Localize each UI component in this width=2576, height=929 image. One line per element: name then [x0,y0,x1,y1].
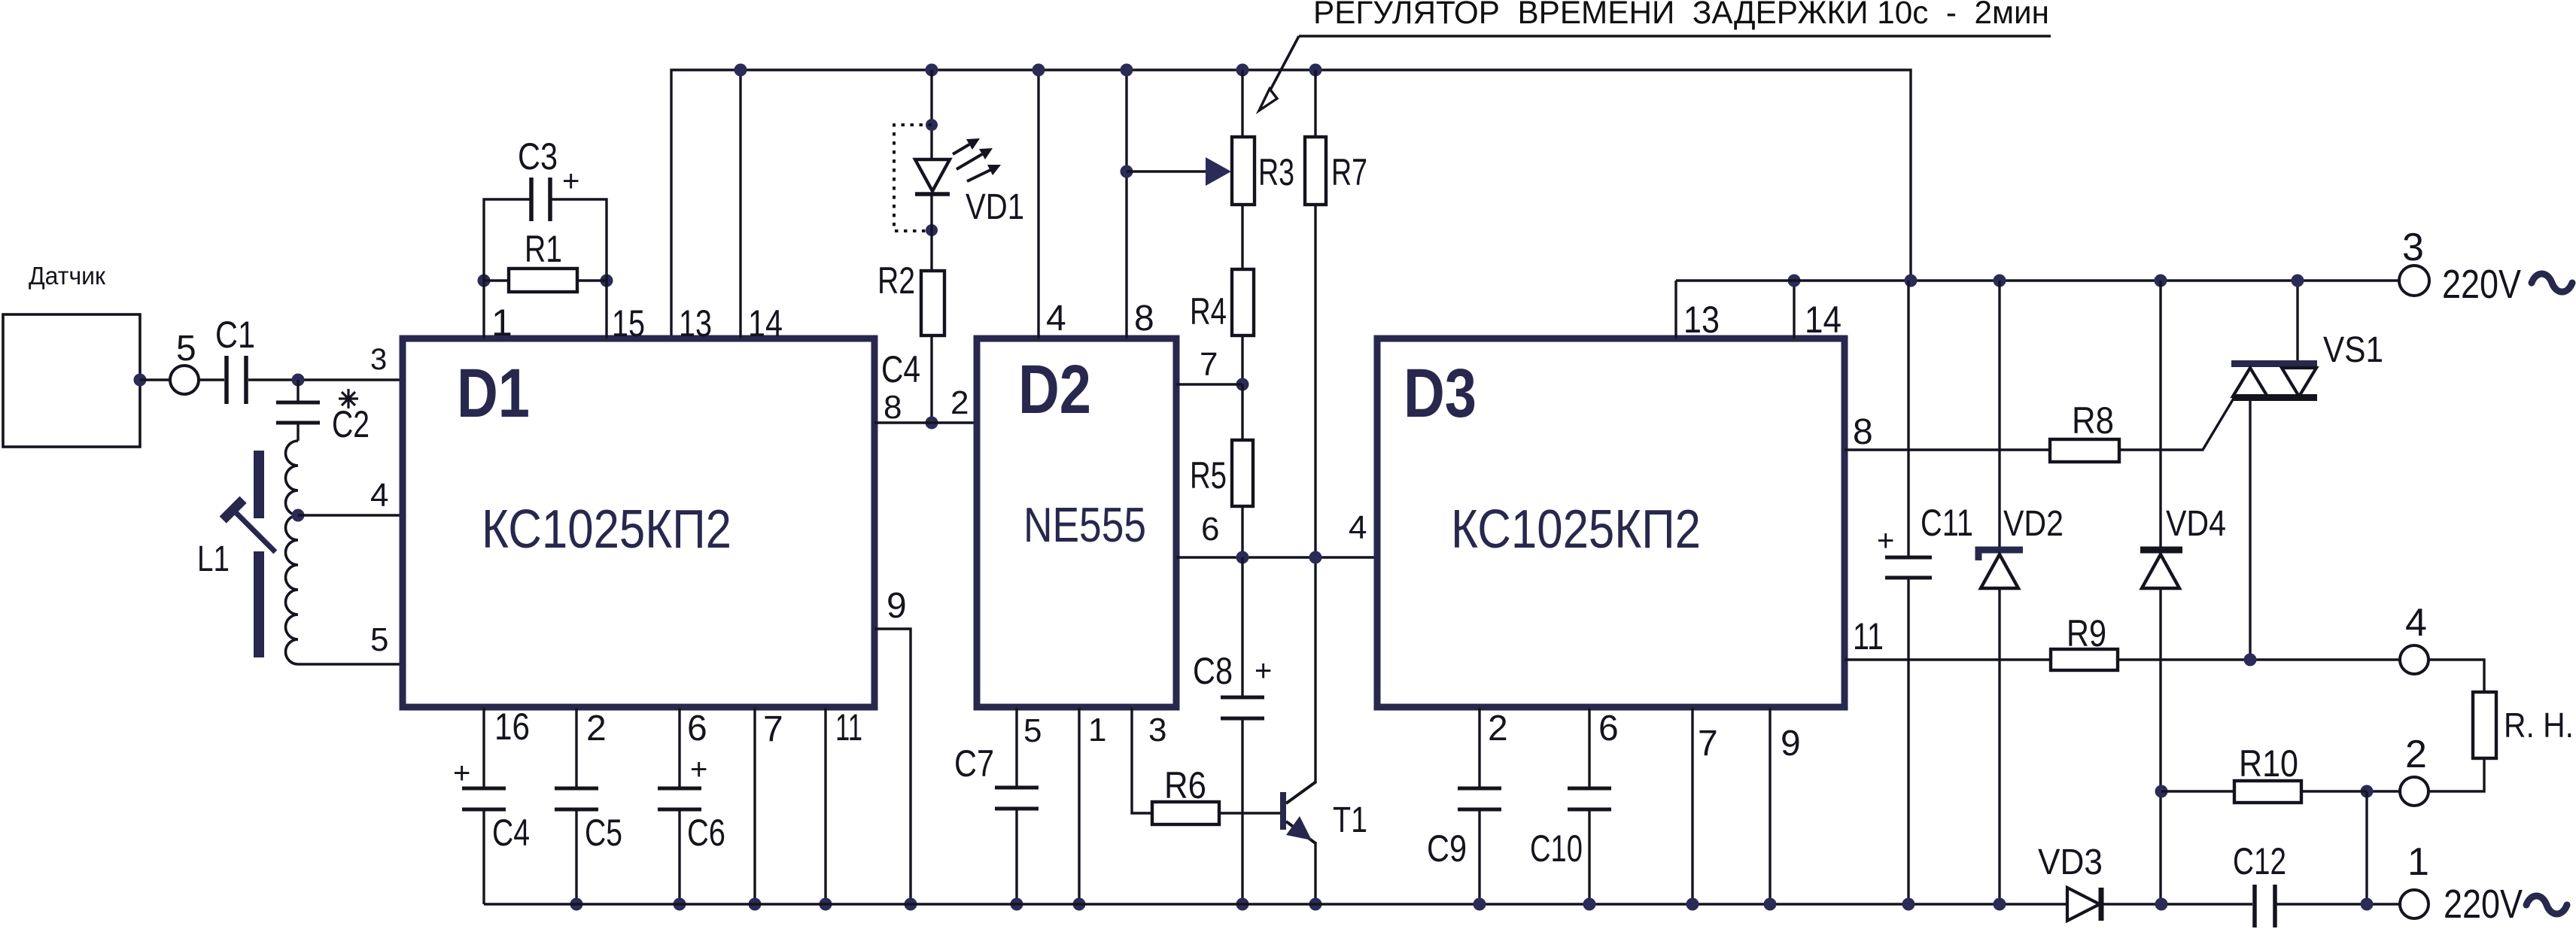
svg-text:D2: D2 [1018,351,1091,428]
node: D2 pin8 on bus [1121,64,1133,77]
svg-text:C2: C2 [332,403,370,445]
node: D2 pin4 on bus [1033,64,1045,77]
wire: D3 pin 6 [1588,708,1590,787]
wire: D2 pin 8 to bus [1125,70,1127,339]
node: R3 top on bus [1236,64,1249,77]
wire: terminal 5 to C1 [199,378,224,381]
transistor T1 emitter lead with arrow [1286,821,1315,843]
wire: R5 to pin6 line [1241,506,1243,557]
wire: terminal 2 to C12 right node [2367,790,2400,792]
node: D3 pin9 ground [1764,898,1777,911]
wire: bus to VD1 [930,70,932,159]
wire: D1 pin 16 [482,708,485,787]
svg-text:R6: R6 [1164,764,1206,806]
diode VD4 triangle [2142,554,2179,588]
node: VS1 on 220V line [2292,275,2304,287]
wire: D2 pin 1 to ground [1078,708,1080,904]
svg-text:R1: R1 [525,228,562,270]
resistor R4 [1232,269,1254,335]
wire: D3 pin 13 to supply line [1674,281,1677,339]
node: C8 branch [1236,551,1249,564]
svg-text:15: 15 [612,302,645,345]
sensor box (Датчик) [3,314,140,447]
svg-text:6: 6 [687,709,707,748]
zener VD2 cathode bar [1978,550,2023,560]
svg-text:R8: R8 [2072,399,2114,442]
svg-text:C3: C3 [518,135,558,178]
svg-text:2: 2 [1488,709,1508,748]
svg-text:6: 6 [1598,709,1619,748]
wire: pin6 node to C8 [1241,557,1243,696]
svg-text:5: 5 [176,329,196,369]
node: pin1 ground [1073,898,1086,911]
wire: C7 to ground bus [1015,810,1017,904]
LED VD1 emission arrows [953,144,969,154]
dotted outline around VD1 (LED housing) [894,125,932,231]
node: R10 left junction (VD4 anode) [2155,785,2168,798]
wire: load to terminal 2 [2428,758,2484,791]
node: VD1 dotted box bottom [926,224,938,236]
svg-text:VD1: VD1 [966,187,1024,227]
inductor L1 coil [286,441,299,664]
wire: D1 pin 11 to ground [824,708,826,904]
capacitor C3 (parallel loop) [484,199,607,281]
wire: R10 left [2161,790,2234,792]
wire: VD4 anode down to R10 node [2159,587,2161,904]
svg-text:Датчик: Датчик [29,262,106,290]
node: C5 ground [570,898,583,911]
svg-text:220V: 220V [2444,882,2523,927]
wire: R8 to VS1 gate [2119,397,2234,450]
triac VS1 top bar [2231,360,2317,367]
node: R7/T1 collector branch [1309,551,1322,564]
svg-text:R5: R5 [1190,454,1227,496]
node: wiper tap on D2 pin8 wire [1121,165,1133,178]
wire: VD2 from 220V line [1998,281,2000,550]
wire: bottom bus right of C12 to terminal 1 [2276,903,2400,905]
label: C2 asterisk (selected value mark) [339,389,358,408]
wire: C6 to ground bus [678,811,680,904]
svg-text:7: 7 [1200,346,1218,383]
L1 ferrite core bar upper [254,451,264,518]
wire: bus to R3 [1241,70,1243,137]
IC D3 box [1377,339,1845,707]
wire: L1 tap to D1 pin 4 [298,514,403,516]
node: T1 emitter ground [1309,898,1322,911]
terminal 2 circle [2400,777,2428,806]
node: VD2 on 220V line [1994,275,2006,287]
wire: VS1 anode to 220V line [2296,281,2298,360]
capacitor C7 [995,788,1039,809]
triac VS1 left triangle [2233,368,2267,396]
resistor R7 [1305,137,1326,205]
resistor R6 [1152,802,1219,824]
svg-text:3: 3 [1148,712,1166,748]
node: C11 ground [1902,898,1915,911]
svg-text:+: + [1255,654,1272,688]
wire: C2 to L1 top [297,424,299,441]
diode VD4 cathode bar [2140,547,2182,554]
svg-text:+: + [1877,524,1894,557]
wire: D1 pin 2 [575,708,577,787]
wire: VD2 to ground bus [1998,587,2000,904]
node: pin9 ground [905,898,917,911]
wire: bottom common bus [484,903,2067,905]
wire: VS1 cathode down to R9 output line [2249,401,2251,660]
wire: R2 to D1 pin8 / D2 pin2 line [930,335,932,423]
wire: node to C2 [297,380,299,401]
node: sensor output [134,374,147,387]
svg-text:4: 4 [2405,601,2427,645]
resistor R1 [484,279,509,281]
svg-text:5: 5 [1023,712,1042,749]
wire: VD1 to R2 [930,194,932,271]
svg-text:7: 7 [763,709,783,749]
node: C7 ground [1011,898,1023,911]
svg-text:R3: R3 [1258,151,1294,193]
transistor T1 collector lead [1286,782,1316,803]
node: VD4 on 220V line [2155,275,2167,287]
wire: sensor to terminal 5 [140,378,170,381]
wire: D3 pin 11 to R9 [1845,658,2051,660]
wire: D2 pin 6 to D3 pin 4 [1176,556,1377,558]
wire: R7 down to pin6 line / T1 collector [1314,205,1316,782]
wire: R6 to T1 base [1219,812,1281,814]
wire: node to R5 [1241,384,1243,440]
node: L1 tap to D1 pin 4 [292,509,305,522]
wire: C8 to ground bus [1241,720,1243,904]
svg-text:220V: 220V [2442,262,2521,307]
wire: D3 pin 14 to supply line [1793,281,1795,339]
IC D1 box [403,339,874,707]
node: C6 ground [674,898,686,911]
svg-text:C12: C12 [2233,840,2286,882]
svg-text:R9: R9 [2067,612,2106,654]
triac VS1 right triangle [2282,368,2316,396]
svg-text:VD3: VD3 [2038,842,2103,882]
svg-text:9: 9 [1781,724,1801,764]
wire: C10 to ground [1588,811,1590,904]
wire: wiper arm [1127,170,1206,172]
terminal 4 circle [2400,645,2428,674]
capacitor C6 (electrolytic) [658,788,701,809]
LED VD1 diode triangle [915,159,950,191]
AC tilde top [2532,274,2572,292]
node: pin14 on bus [734,64,747,77]
wire: 220V phase line (terminal 3) [1676,279,2400,281]
svg-text:R2: R2 [877,260,915,302]
svg-text:2: 2 [950,384,969,421]
svg-text:4: 4 [370,477,388,514]
terminal 5 circle [170,366,199,394]
node: R10 right junction [2361,785,2374,798]
wire: T1 emitter to ground bus [1314,842,1316,904]
capacitor C12 [2255,885,2275,927]
node: C10 ground [1583,898,1596,911]
svg-text:7: 7 [1698,724,1718,764]
triac VS1 bottom bar [2232,394,2317,401]
wire: D2 pin 4 to bus [1037,70,1039,339]
wire: R10 right node down to bottom line [2365,791,2368,904]
svg-text:РЕГУЛЯТОР ВРЕМЕНИ ЗАДЕРЖКИ 1: РЕГУЛЯТОР ВРЕМЕНИ ЗАДЕРЖКИ 10с - 2мин [1313,0,2049,31]
svg-text:+: + [453,757,470,790]
svg-text:8: 8 [1134,299,1154,339]
load resistor R.H. [2473,692,2496,758]
resistor R10 [2234,781,2301,803]
wire: D3 pin 8 to R8 [1845,448,2050,451]
resistor R2 [921,271,944,335]
svg-text:КС1025КП2: КС1025КП2 [1451,499,1701,560]
capacitor C4 (electrolytic) [462,788,506,809]
wire: D2 pin 5 [1015,708,1017,786]
svg-text:4: 4 [1349,509,1367,546]
capacitor C9 [1458,788,1501,809]
svg-text:C11: C11 [1921,502,1973,544]
wire: D1 pin 8 to D2 pin 2 [874,421,977,424]
diode VD3 triangle [2067,888,2100,921]
capacitor C1 [227,356,246,404]
svg-text:9: 9 [887,586,907,626]
capacitor C2 [276,402,320,423]
node: D1 pin1 top [478,275,491,287]
potentiometer R3 body [1232,137,1255,205]
svg-text:C5: C5 [585,812,622,854]
node: pin11 ground [820,898,832,911]
wire: D3 pin 2 [1478,708,1480,787]
wire: D1 pin 6 [678,708,680,787]
svg-text:1: 1 [1088,712,1106,748]
node: D2 pin 7 junction [1236,378,1249,391]
wire: VD4 from 220V line [2159,281,2161,550]
IC D2 box [977,339,1176,707]
node: VD1 branch on bus [926,64,938,77]
svg-text:T1: T1 [1333,800,1367,840]
svg-text:8: 8 [884,389,902,426]
svg-text:+: + [690,753,707,786]
svg-text:6: 6 [1201,511,1219,548]
wire: title pointer diagonal [1267,36,1299,97]
svg-text:КС1025КП2: КС1025КП2 [482,499,731,560]
node: C12 right junction on bottom line [2361,898,2374,911]
svg-text:3: 3 [2402,226,2424,269]
svg-text:4: 4 [1046,299,1066,339]
capacitor C11 (electrolytic) [1885,557,1932,578]
node: C8 ground [1236,898,1249,911]
wire: title underline [1299,35,2051,38]
wire: bus to R7 [1314,70,1316,137]
svg-text:C9: C9 [1427,827,1467,870]
svg-text:5: 5 [370,621,388,658]
wire: C4 to ground bus corner [482,811,485,904]
resistor R5 [1232,440,1253,506]
wire: D2 pin 7 [1176,383,1242,385]
svg-text:14: 14 [1805,299,1842,341]
svg-text:VS1: VS1 [2323,330,2383,370]
node: junction R2 on pin8 line [926,417,938,430]
wire: D3 pin 9 to ground [1769,708,1771,904]
svg-text:C7: C7 [954,742,994,785]
wire: bottom bus right of VD3 [2103,903,2252,905]
node: VD1 dotted box top [926,119,938,131]
arrow head: open pointer to R3 [1259,89,1277,111]
node: VS1 cathode junction [2244,654,2257,666]
svg-text:C6: C6 [687,812,725,854]
diode VD3 cathode bar [2099,888,2104,921]
L1 adjustment arrow (flat-head) [220,496,286,563]
wire: C9 to ground [1478,811,1480,904]
terminal 1 circle [2400,890,2428,918]
svg-text:11: 11 [835,706,862,748]
svg-text:14: 14 [748,302,783,345]
capacitor C5 [555,788,598,809]
wire: C11 to ground bus [1907,579,1909,904]
node: pin14 junction on 220V line [1788,275,1801,287]
svg-text:2: 2 [586,709,607,748]
terminal 3 circle [2399,266,2429,296]
svg-text:1: 1 [2407,840,2429,884]
node: R7 top on bus [1309,64,1322,77]
svg-text:D1: D1 [457,355,530,432]
svg-text:16: 16 [494,706,530,748]
svg-text:C4: C4 [881,348,920,390]
node: pin7 ground [749,898,762,911]
svg-text:C10: C10 [1530,827,1583,870]
wire: D1 pin 7 to ground [753,708,756,904]
node: top bus drop junction [1905,275,1918,287]
svg-text:C8: C8 [1193,650,1233,692]
node: VD4/R10 line to bottom bus [2155,898,2168,911]
AC tilde bottom [2526,896,2567,914]
svg-text:11: 11 [1853,615,1884,657]
resistor R8 [2050,439,2119,462]
svg-text:VD4: VD4 [2166,504,2226,544]
node: junction C1/C2 [292,374,305,387]
capacitor C10 [1568,788,1611,809]
wire: C5 to ground bus [575,811,577,904]
svg-text:13: 13 [1683,299,1720,341]
svg-text:R. H.: R. H. [2504,706,2574,745]
svg-text:L1: L1 [197,539,230,579]
wire: D1 pin 14 [739,70,741,339]
wire: R4 to node pin7 [1241,335,1243,384]
svg-text:C1: C1 [215,314,255,356]
svg-text:+: + [562,165,579,198]
wire: C11 from 220V line [1907,281,1909,556]
node: C9 ground [1474,898,1486,911]
svg-text:R4: R4 [1190,290,1227,332]
svg-text:R10: R10 [2239,742,2298,785]
svg-text:R7: R7 [1331,151,1367,193]
wire: terminal 4 to load R.H. [2428,660,2484,692]
node: D3 pin7 ground [1686,898,1699,911]
wire: D2 pin 3 stub [1132,708,1152,813]
wire: C1 to D1 pin 3 [248,378,403,381]
svg-text:13: 13 [679,302,712,345]
node: VD2 ground [1994,898,2006,911]
svg-text:8: 8 [1853,412,1873,452]
wire: D3 pin 7 to ground [1691,708,1693,904]
wire: L1 bottom to D1 pin 5 [298,663,403,665]
node: D1 pin15 top [601,275,613,287]
wire: top supply bus from D1 pin13 across to right drop at x=2539 [671,70,1911,339]
wire: D1 pin 1 [482,281,485,339]
resistor R9 [2051,649,2118,670]
arrow: wiper arrowhead [1206,157,1231,186]
wire: R10 right [2301,790,2367,792]
zener VD2 triangle [1981,554,2018,588]
svg-text:C4: C4 [492,812,530,854]
transistor T1 base bar [1280,792,1286,830]
wire: D1 pin 9 to ground [874,629,911,904]
svg-text:NE555: NE555 [1023,497,1146,552]
svg-text:VD2: VD2 [2003,504,2064,544]
svg-text:3: 3 [370,343,387,376]
wire: R3 to R4 [1241,205,1243,269]
LED VD1 cathode bar [915,192,950,196]
svg-text:1: 1 [491,302,512,344]
svg-text:D3: D3 [1404,355,1477,432]
capacitor C8 (electrolytic) [1221,697,1264,718]
svg-text:2: 2 [2405,733,2427,776]
wire: D1 pin 15 [605,281,607,339]
L1 ferrite core bar lower [254,551,264,657]
wire: R9 to terminal 4 [2118,658,2400,660]
